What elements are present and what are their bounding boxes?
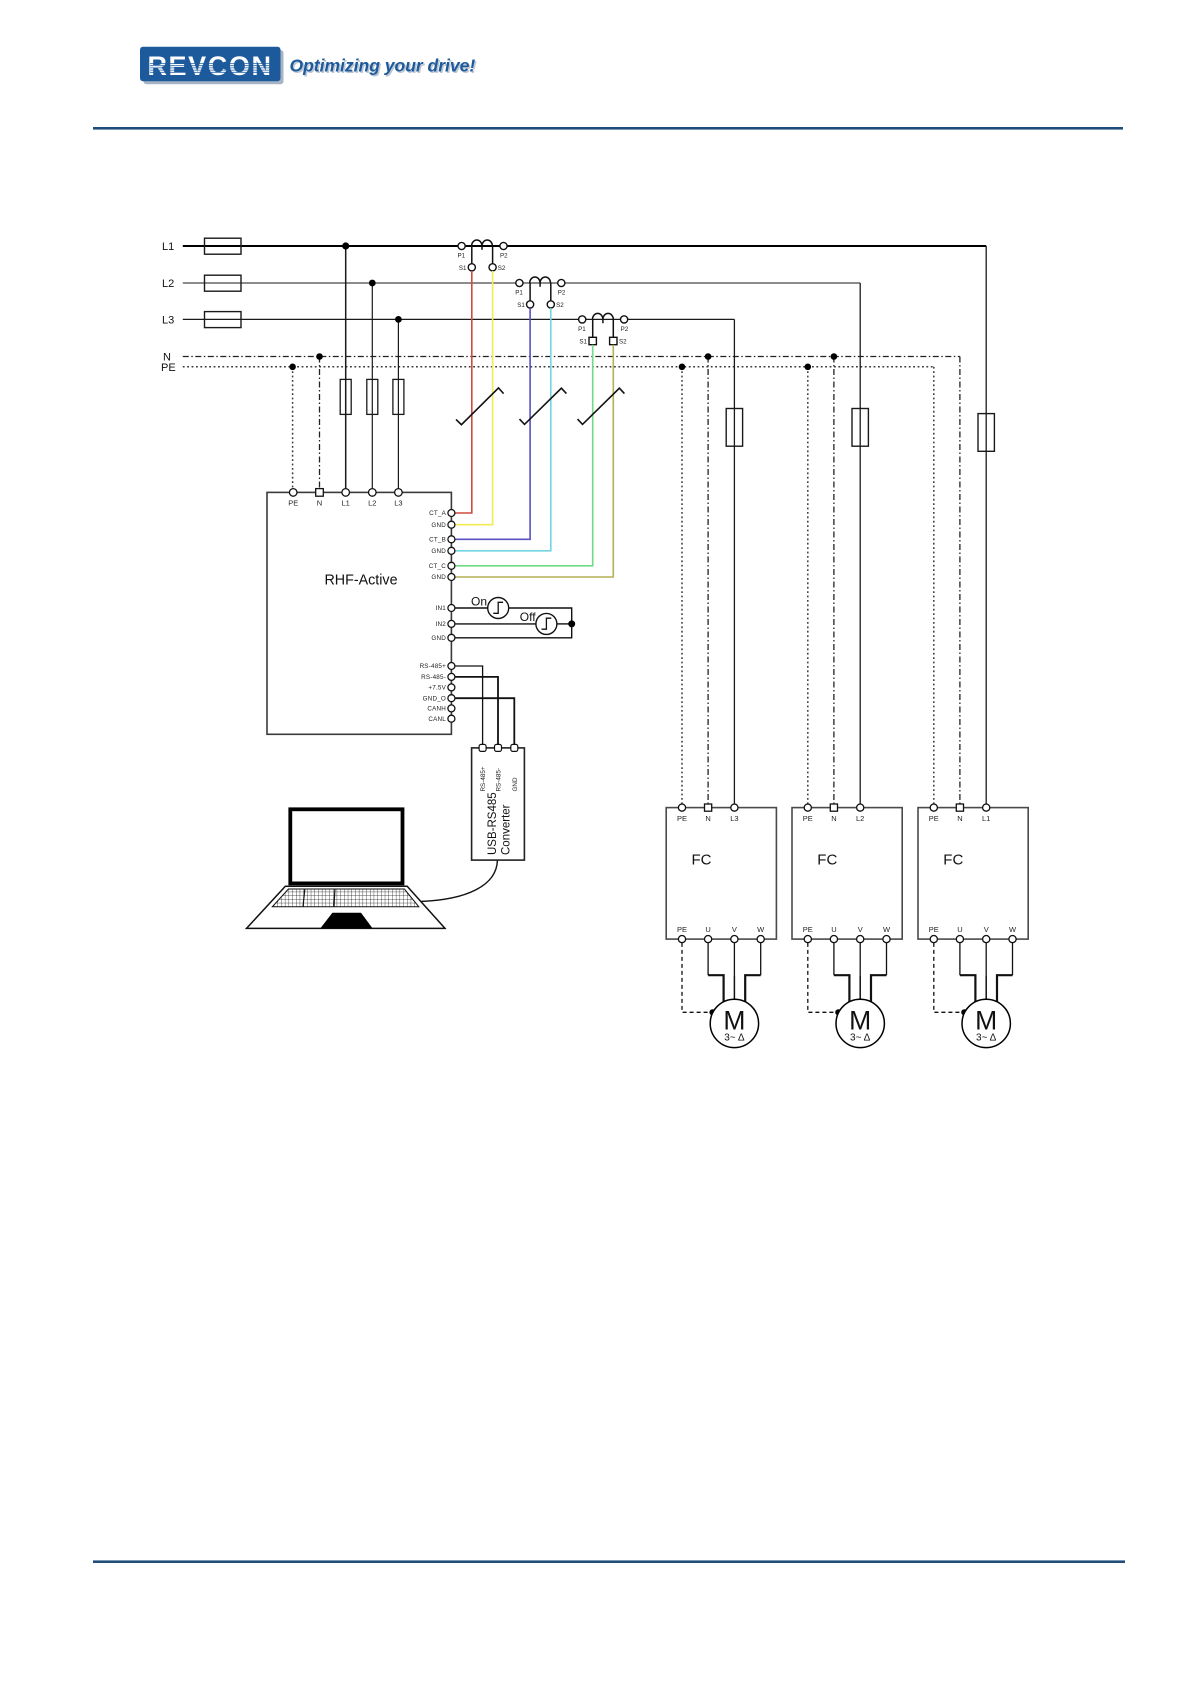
svg-text:L1: L1 — [982, 814, 990, 823]
svg-text:S2: S2 — [498, 265, 506, 272]
svg-text:RHF-Active: RHF-Active — [324, 573, 397, 589]
svg-text:L3: L3 — [162, 315, 174, 327]
svg-text:W: W — [883, 925, 891, 934]
svg-text:U: U — [957, 925, 962, 934]
svg-text:U: U — [831, 925, 836, 934]
svg-text:P1: P1 — [515, 290, 523, 297]
svg-text:P2: P2 — [500, 253, 508, 260]
svg-text:CANH: CANH — [427, 706, 446, 713]
svg-text:GND: GND — [431, 522, 446, 529]
svg-text:3~ Δ: 3~ Δ — [850, 1033, 871, 1044]
svg-text:S1: S1 — [517, 302, 525, 309]
svg-text:GND_O: GND_O — [423, 695, 446, 702]
svg-text:RS-485+: RS-485+ — [480, 766, 487, 791]
svg-text:PE: PE — [929, 925, 939, 934]
svg-text:GND: GND — [431, 548, 446, 555]
svg-text:PE: PE — [803, 814, 813, 823]
svg-text:P2: P2 — [558, 290, 566, 297]
svg-text:FC: FC — [817, 852, 837, 869]
svg-text:IN1: IN1 — [436, 605, 447, 612]
svg-text:L2: L2 — [162, 278, 174, 290]
svg-text:PE: PE — [677, 925, 687, 934]
svg-text:V: V — [732, 925, 737, 934]
svg-text:3~ Δ: 3~ Δ — [724, 1033, 745, 1044]
svg-text:PE: PE — [288, 499, 298, 508]
svg-text:USB-RS485: USB-RS485 — [487, 792, 499, 855]
svg-text:W: W — [757, 925, 765, 934]
svg-text:FC: FC — [692, 852, 712, 869]
svg-text:P1: P1 — [578, 326, 586, 333]
svg-text:N: N — [957, 814, 962, 823]
svg-text:PE: PE — [803, 925, 813, 934]
svg-text:S2: S2 — [556, 302, 564, 309]
svg-text:P1: P1 — [458, 253, 466, 260]
svg-text:RS-485-: RS-485- — [496, 768, 503, 791]
svg-text:S2: S2 — [619, 338, 627, 345]
svg-text:V: V — [858, 925, 863, 934]
svg-text:PE: PE — [677, 814, 687, 823]
svg-text:M: M — [975, 1006, 997, 1036]
svg-text:PE: PE — [161, 362, 176, 374]
svg-text:M: M — [849, 1006, 871, 1036]
svg-text:CT_A: CT_A — [429, 510, 446, 517]
svg-text:PE: PE — [929, 814, 939, 823]
svg-text:+7.5V: +7.5V — [428, 685, 446, 692]
svg-text:RS-485+: RS-485+ — [420, 663, 447, 670]
svg-text:V: V — [984, 925, 989, 934]
svg-text:L1: L1 — [342, 499, 350, 508]
svg-text:GND: GND — [431, 635, 446, 642]
svg-text:N: N — [317, 499, 322, 508]
svg-text:FC: FC — [943, 852, 963, 869]
svg-text:On: On — [471, 595, 487, 609]
svg-text:W: W — [1009, 925, 1017, 934]
svg-text:CT_B: CT_B — [429, 537, 446, 544]
svg-text:N: N — [705, 814, 710, 823]
svg-text:L3: L3 — [394, 499, 402, 508]
svg-text:GND: GND — [512, 777, 519, 791]
svg-text:L3: L3 — [730, 814, 738, 823]
svg-text:CANL: CANL — [428, 716, 446, 723]
svg-text:Off: Off — [520, 610, 536, 624]
svg-text:S1: S1 — [579, 338, 587, 345]
svg-text:P2: P2 — [621, 326, 629, 333]
svg-text:L2: L2 — [856, 814, 864, 823]
svg-text:GND: GND — [431, 574, 446, 581]
svg-text:IN2: IN2 — [436, 621, 447, 628]
svg-text:CT_C: CT_C — [429, 563, 446, 570]
svg-text:S1: S1 — [459, 265, 467, 272]
svg-text:Converter: Converter — [501, 804, 513, 855]
svg-text:RS-485-: RS-485- — [421, 674, 446, 681]
svg-text:N: N — [831, 814, 836, 823]
svg-text:M: M — [723, 1006, 745, 1036]
svg-text:Optimizing your drive!: Optimizing your drive! — [290, 56, 476, 76]
svg-text:3~ Δ: 3~ Δ — [976, 1033, 997, 1044]
svg-text:L1: L1 — [162, 241, 174, 253]
svg-text:L2: L2 — [368, 499, 376, 508]
svg-text:U: U — [705, 925, 710, 934]
